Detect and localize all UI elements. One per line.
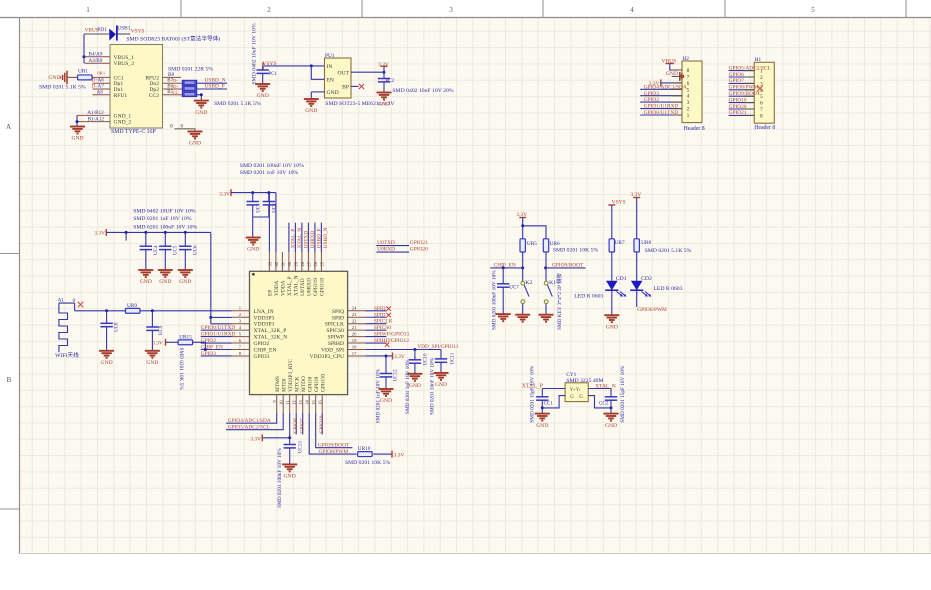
svg-text:CC1: CC1 bbox=[544, 402, 554, 407]
svg-text:WIFI天线: WIFI天线 bbox=[55, 351, 79, 359]
svg-text:GPIO10: GPIO10 bbox=[320, 374, 326, 392]
svg-text:SMD SOD823 BAT60J (ST意法半导体): SMD SOD823 BAT60J (ST意法半导体) bbox=[126, 35, 220, 43]
svg-text:UC13: UC13 bbox=[299, 441, 304, 453]
svg-text:24: 24 bbox=[352, 306, 357, 311]
svg-text:U0RXD: U0RXD bbox=[307, 278, 313, 296]
svg-text:SMD 0201 10K 5%: SMD 0201 10K 5% bbox=[178, 348, 184, 391]
svg-text:UR6: UR6 bbox=[550, 241, 560, 247]
svg-text:G: G bbox=[579, 395, 583, 400]
svg-text:UR10: UR10 bbox=[358, 446, 371, 452]
svg-text:SPIHD: SPIHD bbox=[328, 341, 344, 347]
svg-text:H1: H1 bbox=[755, 57, 762, 63]
svg-text:GND_1: GND_1 bbox=[114, 113, 132, 119]
svg-text:UC7: UC7 bbox=[509, 286, 519, 291]
svg-text:GPIO8: GPIO8 bbox=[307, 376, 313, 392]
svg-text:VDD3P3: VDD3P3 bbox=[254, 322, 275, 328]
svg-text:GPIO21: GPIO21 bbox=[410, 240, 428, 246]
svg-text:0R1: 0R1 bbox=[98, 70, 106, 75]
svg-text:SPIHD/GPIO12: SPIHD/GPIO12 bbox=[374, 338, 409, 344]
svg-text:SMD 0201 5.1K 5%: SMD 0201 5.1K 5% bbox=[39, 84, 86, 90]
svg-text:SMD 0201 100nF 10V 10%: SMD 0201 100nF 10V 10% bbox=[491, 270, 497, 330]
svg-text:SPIQ: SPIQ bbox=[332, 309, 344, 315]
svg-text:CC2: CC2 bbox=[149, 93, 159, 99]
svg-text:31: 31 bbox=[281, 261, 286, 266]
svg-text:CC2: CC2 bbox=[599, 402, 609, 407]
svg-text:GND: GND bbox=[378, 102, 390, 108]
svg-text:SPICS0: SPICS0 bbox=[374, 325, 391, 331]
svg-text:3.3V: 3.3V bbox=[250, 436, 261, 442]
svg-text:15: 15 bbox=[311, 400, 316, 405]
svg-text:UC4: UC4 bbox=[154, 245, 159, 255]
svg-text:MTDI: MTDI bbox=[281, 378, 287, 392]
svg-text:3.3V: 3.3V bbox=[94, 231, 105, 237]
svg-text:Y+Y-: Y+Y- bbox=[570, 388, 581, 393]
svg-text:GPIO0/U1TXD: GPIO0/U1TXD bbox=[201, 325, 236, 331]
svg-text:UC5: UC5 bbox=[173, 245, 178, 255]
svg-text:12: 12 bbox=[291, 400, 296, 405]
svg-text:1: 1 bbox=[86, 6, 90, 14]
svg-text:4: 4 bbox=[630, 6, 634, 14]
svg-text:K2: K2 bbox=[525, 280, 532, 286]
svg-text:GND: GND bbox=[146, 360, 158, 366]
svg-text:11: 11 bbox=[285, 400, 290, 405]
svg-text:SMD 0201 100nF 10V 10%: SMD 0201 100nF 10V 10% bbox=[133, 224, 197, 230]
svg-text:D+: D+ bbox=[173, 84, 179, 89]
svg-text:GND: GND bbox=[327, 90, 339, 96]
svg-text:SMD 0201 10K 5%: SMD 0201 10K 5% bbox=[553, 248, 599, 254]
svg-text:SPICS0: SPICS0 bbox=[326, 328, 344, 334]
svg-text:IN: IN bbox=[327, 64, 333, 70]
svg-text:GPIO2: GPIO2 bbox=[254, 341, 270, 347]
svg-text:PC1: PC1 bbox=[269, 72, 278, 77]
svg-text:GPIO20: GPIO20 bbox=[410, 246, 428, 252]
svg-text:GPIO3: GPIO3 bbox=[644, 91, 660, 97]
svg-text:18: 18 bbox=[352, 344, 357, 349]
svg-text:10: 10 bbox=[278, 400, 283, 405]
svg-text:SPICLK: SPICLK bbox=[325, 322, 344, 328]
svg-text:GPIO4/ADC1/SDA: GPIO4/ADC1/SDA bbox=[228, 418, 271, 424]
svg-text:D-: D- bbox=[173, 78, 178, 83]
svg-text:GPIO9: GPIO9 bbox=[314, 376, 320, 392]
svg-text:VDD3P3: VDD3P3 bbox=[254, 315, 275, 321]
svg-text:SMD 0201 100nF 10V 10%: SMD 0201 100nF 10V 10% bbox=[277, 448, 283, 508]
svg-text:A4/B9: A4/B9 bbox=[89, 58, 103, 64]
svg-text:VSYS: VSYS bbox=[131, 28, 145, 34]
svg-text:GND: GND bbox=[305, 108, 317, 114]
svg-text:GND_2: GND_2 bbox=[114, 120, 132, 126]
svg-text:MTDO: MTDO bbox=[301, 376, 307, 392]
svg-text:SPIQ: SPIQ bbox=[374, 306, 386, 312]
svg-text:UC2: UC2 bbox=[273, 203, 278, 213]
svg-text:26: 26 bbox=[313, 261, 318, 266]
svg-text:VBUS_1: VBUS_1 bbox=[114, 55, 135, 61]
svg-text:UR1: UR1 bbox=[78, 69, 88, 75]
svg-text:CD2: CD2 bbox=[641, 276, 652, 282]
svg-text:LNA_IN: LNA_IN bbox=[254, 309, 274, 315]
svg-text:GND: GND bbox=[48, 75, 60, 81]
svg-text:GND: GND bbox=[101, 360, 113, 366]
svg-text:VDD3P3_RTC: VDD3P3_RTC bbox=[288, 359, 294, 392]
svg-text:B1/A12: B1/A12 bbox=[88, 116, 105, 122]
svg-text:OUT: OUT bbox=[338, 71, 350, 77]
svg-text:GPIO9/BOOT: GPIO9/BOOT bbox=[552, 263, 584, 269]
svg-text:GND: GND bbox=[140, 279, 152, 285]
svg-text:MTCK: MTCK bbox=[294, 376, 300, 392]
svg-text:SMD 0201 1nF 10V 10%: SMD 0201 1nF 10V 10% bbox=[405, 359, 411, 414]
svg-text:USB1: USB1 bbox=[117, 26, 130, 32]
svg-text:XTAL_32K_P: XTAL_32K_P bbox=[254, 328, 287, 334]
svg-text:GND: GND bbox=[605, 423, 617, 429]
svg-text:SMD 0201 5.1K 5%: SMD 0201 5.1K 5% bbox=[645, 248, 692, 254]
svg-text:8: 8 bbox=[687, 68, 690, 74]
svg-text:16: 16 bbox=[317, 400, 322, 405]
svg-text:32: 32 bbox=[274, 261, 279, 266]
svg-text:UC8: UC8 bbox=[114, 322, 119, 332]
svg-text:A6: A6 bbox=[98, 78, 105, 84]
svg-text:EN: EN bbox=[327, 77, 334, 83]
svg-text:UR8: UR8 bbox=[641, 240, 651, 246]
svg-text:CHIP_EN: CHIP_EN bbox=[494, 263, 516, 269]
svg-text:0: 0 bbox=[170, 123, 173, 129]
svg-text:BP: BP bbox=[342, 85, 349, 91]
svg-text:VDD_SPI/GPIO11: VDD_SPI/GPIO11 bbox=[417, 344, 459, 350]
svg-text:3.3V: 3.3V bbox=[394, 453, 405, 459]
svg-text:5: 5 bbox=[811, 6, 815, 14]
svg-text:UR7: UR7 bbox=[615, 240, 625, 246]
svg-text:VDDA: VDDA bbox=[281, 280, 287, 296]
svg-text:CD1: CD1 bbox=[616, 276, 627, 282]
svg-text:SPIWP/GPIO13: SPIWP/GPIO13 bbox=[374, 332, 410, 338]
svg-text:U0TXD: U0TXD bbox=[300, 278, 306, 296]
svg-text:SMD 0201 5.1K 5%: SMD 0201 5.1K 5% bbox=[214, 101, 261, 107]
svg-text:SPICLK: SPICLK bbox=[374, 319, 393, 325]
svg-text:VDD_SPI: VDD_SPI bbox=[321, 348, 344, 354]
svg-text:GPIO2: GPIO2 bbox=[644, 97, 660, 103]
svg-text:GND: GND bbox=[71, 136, 83, 142]
svg-text:2: 2 bbox=[760, 75, 763, 81]
svg-text:19: 19 bbox=[352, 338, 357, 343]
svg-text:PC2: PC2 bbox=[386, 79, 395, 84]
svg-text:B4/A9: B4/A9 bbox=[89, 52, 103, 58]
svg-text:XTAL_32K_N: XTAL_32K_N bbox=[254, 335, 288, 341]
svg-text:GPIO7: GPIO7 bbox=[300, 418, 306, 434]
svg-text:SMD 0201 1uF 10V 10%: SMD 0201 1uF 10V 10% bbox=[133, 216, 192, 222]
svg-text:GPIO10: GPIO10 bbox=[319, 415, 325, 433]
svg-text:GND: GND bbox=[195, 110, 207, 116]
svg-text:6: 6 bbox=[760, 101, 763, 107]
svg-text:SMD 0201 100nF 10V 10%: SMD 0201 100nF 10V 10% bbox=[240, 163, 304, 169]
svg-text:GND: GND bbox=[247, 247, 259, 253]
svg-text:8: 8 bbox=[760, 113, 763, 119]
svg-text:3.3V: 3.3V bbox=[394, 354, 405, 360]
svg-text:SMD 0402 10uF 10V 10%: SMD 0402 10uF 10V 10% bbox=[252, 23, 258, 84]
svg-text:25: 25 bbox=[320, 261, 325, 266]
svg-text:USBD_N: USBD_N bbox=[323, 227, 329, 248]
svg-text:GND: GND bbox=[435, 382, 447, 388]
svg-text:27: 27 bbox=[307, 261, 312, 266]
svg-text:GND: GND bbox=[179, 279, 191, 285]
svg-text:SMD TYPE-C 16P: SMD TYPE-C 16P bbox=[111, 129, 156, 135]
svg-text:GND: GND bbox=[159, 279, 171, 285]
svg-text:PD1: PD1 bbox=[97, 27, 107, 33]
svg-text:A8: A8 bbox=[97, 90, 104, 96]
svg-text:VBUS_2: VBUS_2 bbox=[114, 61, 135, 67]
svg-text:30: 30 bbox=[287, 261, 292, 266]
svg-text:GND: GND bbox=[606, 324, 618, 330]
svg-text:UR9: UR9 bbox=[127, 303, 137, 309]
svg-text:LED B 0603: LED B 0603 bbox=[653, 286, 682, 292]
svg-text:GND: GND bbox=[380, 398, 392, 404]
svg-text:H2: H2 bbox=[682, 56, 689, 62]
svg-text:GND: GND bbox=[189, 141, 201, 147]
svg-text:SMD KEY 3*4*2 2P 侧按: SMD KEY 3*4*2 2P 侧按 bbox=[555, 273, 563, 330]
svg-text:U0RXD: U0RXD bbox=[377, 246, 395, 252]
svg-text:6: 6 bbox=[687, 81, 690, 87]
svg-text:22: 22 bbox=[352, 319, 357, 324]
svg-text:UC6: UC6 bbox=[193, 245, 198, 255]
svg-text:U0TXD: U0TXD bbox=[377, 240, 395, 246]
svg-text:GPIO9/BOOT: GPIO9/BOOT bbox=[318, 442, 350, 448]
svg-text:29: 29 bbox=[294, 261, 299, 266]
svg-text:GPIO19: GPIO19 bbox=[313, 278, 319, 296]
svg-text:VDDA: VDDA bbox=[274, 280, 280, 296]
svg-text:B: B bbox=[7, 376, 12, 384]
svg-text:UC11: UC11 bbox=[451, 352, 456, 364]
svg-text:GPIO7: GPIO7 bbox=[729, 78, 745, 84]
svg-text:GND: GND bbox=[536, 423, 548, 429]
svg-text:7: 7 bbox=[687, 74, 690, 80]
svg-text:UC10: UC10 bbox=[424, 353, 429, 365]
svg-text:17: 17 bbox=[352, 351, 357, 356]
svg-text:28: 28 bbox=[300, 261, 305, 266]
svg-text:3.3V: 3.3V bbox=[219, 191, 230, 197]
svg-text:5: 5 bbox=[687, 87, 690, 93]
svg-text:Header 8: Header 8 bbox=[754, 125, 775, 131]
svg-text:GPIO2: GPIO2 bbox=[201, 338, 217, 344]
svg-text:3.3V: 3.3V bbox=[152, 340, 163, 346]
svg-text:UC1: UC1 bbox=[257, 203, 262, 213]
svg-text:GND: GND bbox=[257, 93, 269, 99]
svg-text:14: 14 bbox=[304, 400, 309, 405]
svg-text:SMD 0201 10nF 10V 10%: SMD 0201 10nF 10V 10% bbox=[430, 357, 436, 415]
svg-text:CHIP_EN: CHIP_EN bbox=[254, 348, 277, 354]
svg-text:G: G bbox=[570, 395, 574, 400]
svg-text:SPID: SPID bbox=[374, 312, 386, 318]
svg-text:LED R 0603: LED R 0603 bbox=[574, 293, 603, 299]
svg-text:GPIO6: GPIO6 bbox=[293, 418, 299, 434]
svg-text:20: 20 bbox=[352, 331, 357, 336]
svg-text:USBD_P: USBD_P bbox=[205, 83, 225, 89]
svg-text:5: 5 bbox=[760, 94, 763, 100]
svg-text:EP: EP bbox=[268, 290, 274, 296]
svg-text:SMD 0201 1nF 10V 10%: SMD 0201 1nF 10V 10% bbox=[240, 170, 299, 176]
svg-text:GPIO8/PWM: GPIO8/PWM bbox=[319, 449, 349, 455]
svg-text:A: A bbox=[6, 123, 11, 131]
svg-text:21: 21 bbox=[352, 325, 357, 330]
svg-text:GND: GND bbox=[284, 474, 296, 480]
svg-text:GPIO5/ADC2/SCL: GPIO5/ADC2/SCL bbox=[228, 425, 270, 431]
svg-text:UR5: UR5 bbox=[527, 241, 537, 247]
svg-text:SMD 0201 22R 5%: SMD 0201 22R 5% bbox=[168, 67, 213, 73]
svg-text:3: 3 bbox=[687, 100, 690, 106]
svg-text:GPIO3: GPIO3 bbox=[254, 354, 270, 360]
svg-text:SMD 0201 10K 5%: SMD 0201 10K 5% bbox=[345, 460, 391, 466]
svg-text:SMD 0402 10UF 10V 10%: SMD 0402 10UF 10V 10% bbox=[133, 208, 196, 214]
svg-text:SPID: SPID bbox=[332, 315, 344, 321]
svg-text:2: 2 bbox=[687, 107, 690, 113]
svg-text:GPIO18: GPIO18 bbox=[320, 278, 326, 296]
svg-text:3: 3 bbox=[449, 6, 453, 14]
svg-text:7: 7 bbox=[760, 107, 763, 113]
svg-text:SMD 0201 15pF 16V 10%: SMD 0201 15pF 16V 10% bbox=[529, 365, 535, 423]
svg-text:GPIO1/U1RXD: GPIO1/U1RXD bbox=[201, 332, 236, 338]
svg-text:2: 2 bbox=[267, 6, 271, 14]
svg-text:13: 13 bbox=[298, 400, 303, 405]
svg-text:SMD 0201 1nF 10V 10%: SMD 0201 1nF 10V 10% bbox=[375, 368, 381, 423]
svg-text:23: 23 bbox=[352, 312, 357, 317]
svg-text:XTAL_N: XTAL_N bbox=[294, 275, 300, 296]
svg-text:A1/B12: A1/B12 bbox=[87, 110, 104, 116]
svg-text:VDD3P3_CPU: VDD3P3_CPU bbox=[309, 354, 344, 360]
svg-text:33: 33 bbox=[268, 261, 273, 266]
svg-text:SMD 0201 15pF 16V 10%: SMD 0201 15pF 16V 10% bbox=[620, 365, 626, 423]
svg-text:SMD 0402 10uF 10V 20%: SMD 0402 10uF 10V 20% bbox=[392, 88, 453, 94]
svg-text:MTMS: MTMS bbox=[275, 376, 281, 392]
svg-text:XTAL_P: XTAL_P bbox=[287, 276, 293, 296]
svg-text:GPIO6: GPIO6 bbox=[729, 72, 745, 78]
svg-text:GPIO3: GPIO3 bbox=[201, 351, 217, 357]
svg-text:K1: K1 bbox=[549, 280, 556, 286]
svg-text:1: 1 bbox=[687, 113, 690, 119]
svg-text:4: 4 bbox=[687, 94, 690, 100]
svg-text:RFU1: RFU1 bbox=[114, 93, 128, 99]
svg-text:SPIWP: SPIWP bbox=[328, 335, 344, 341]
svg-text:A1: A1 bbox=[58, 297, 65, 303]
svg-text:UC9: UC9 bbox=[159, 325, 164, 335]
svg-text:GPIO6/PWM: GPIO6/PWM bbox=[637, 307, 667, 313]
svg-text:3.3V: 3.3V bbox=[378, 62, 389, 68]
svg-text:Header 8: Header 8 bbox=[684, 126, 705, 132]
svg-text:CC: CC bbox=[173, 90, 179, 95]
svg-text:UC12: UC12 bbox=[393, 369, 398, 381]
